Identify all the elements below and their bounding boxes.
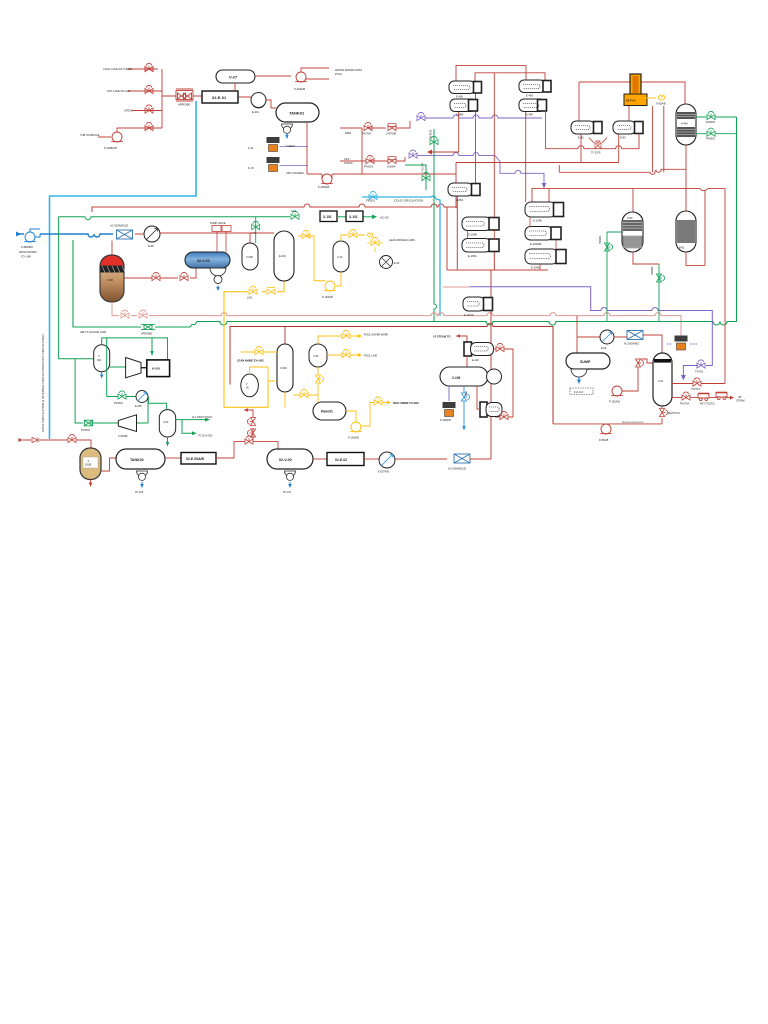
wire: red row SILK y=161 [340, 157, 405, 161]
wire: red TV0713 line [672, 383, 725, 385]
svg-text:RICH AMINE TO ABS: RICH AMINE TO ABS [393, 401, 419, 405]
vessel V-06 (circle) [241, 374, 259, 397]
svg-text:X-101: X-101 [349, 215, 358, 219]
svg-text:X-05A/B: X-05A/B [656, 102, 666, 106]
svg-text:COLD LAKE OIL TURBO: COLD LAKE OIL TURBO [103, 67, 132, 71]
svg-text:AMY'S SUGAR LINE: AMY'S SUGAR LINE [80, 330, 106, 334]
svg-text:E-456: E-456 [526, 94, 533, 98]
valve yellow lean amine [371, 237, 379, 245]
wire: yellow TANK03 outlet to pump [346, 403, 387, 427]
wire: TANK01 bottoms line to pump [307, 122, 322, 174]
wire: red bottom feed line [23, 440, 91, 448]
valve feed-3 [145, 105, 153, 113]
wire: yellow V-30 bottom to TANK03 [293, 367, 318, 402]
funnel under TANK02 [137, 471, 148, 480]
valve green PV-0700 [430, 136, 438, 144]
instrument top right [675, 336, 688, 351]
valve motorized KEY-T31 [698, 394, 709, 401]
svg-text:E-001: E-001 [279, 254, 286, 258]
valve yellow V-10 top [349, 229, 357, 237]
svg-text:H-80: H-80 [627, 217, 633, 220]
valve yellow x=306 [302, 230, 310, 238]
svg-text:V-105: V-105 [452, 376, 461, 380]
vessel V-002 [277, 344, 293, 392]
wire: to V-00 column [614, 335, 662, 353]
svg-text:AUX: AUX [465, 391, 468, 396]
svg-text:TV0711: TV0711 [695, 371, 704, 374]
svg-text:02-V-00: 02-V-00 [279, 458, 292, 462]
svg-text:P-103A/B: P-103A/B [322, 296, 333, 299]
wire: green main bus y=321.5 [73, 117, 737, 327]
svg-text:P-404A/B: P-404A/B [294, 87, 305, 91]
wire: green F-HC-UP stub [405, 165, 426, 190]
exchanger E-10x bottom [463, 297, 493, 311]
exchanger E-88 (circle) [144, 226, 160, 242]
exchanger E-80L [571, 121, 602, 134]
wire: red H-81 bottoms [686, 252, 705, 265]
wire: red rail top y=65.4 [456, 65, 526, 81]
svg-text:APROB0: APROB0 [178, 103, 191, 107]
vessel V-30 [309, 344, 327, 367]
svg-text:E-85A: E-85A [456, 198, 463, 202]
svg-text:TRACK: TRACK [344, 161, 353, 165]
svg-text:P-88A/B/C: P-88A/B/C [21, 245, 33, 249]
pump P-88A/B/C (blue) [24, 232, 36, 242]
valve red E-102 out [496, 343, 504, 351]
svg-text:PV-0700: PV-0700 [430, 129, 433, 139]
svg-text:E-007A/B: E-007A/B [378, 471, 389, 474]
wire: red rail A y=172.3 H-440 bottoms [559, 145, 686, 211]
svg-text:TO 02-K-001: TO 02-K-001 [198, 435, 213, 438]
exchanger E-301 (circle with legs) [251, 93, 266, 108]
svg-text:V-30: V-30 [313, 354, 319, 358]
svg-text:PV0704: PV0704 [680, 403, 690, 406]
wire: green branch to recycle valve [75, 359, 118, 423]
svg-text:TV 2076: TV 2076 [591, 152, 601, 155]
funnel under SUMP [571, 369, 587, 377]
column H-440 [676, 104, 696, 145]
wire: tan vessel bottom arrow [90, 480, 92, 484]
svg-text:LV0700B: LV0700B [386, 133, 396, 136]
wire: red rail B y=188.6 [532, 189, 725, 384]
svg-text:Flare01: Flare01 [321, 410, 333, 414]
valve green recycle [84, 420, 93, 426]
wire: red H-80 bottoms [633, 252, 659, 264]
valve V-88 draw 1 [152, 272, 160, 280]
svg-text:H-440: H-440 [681, 123, 688, 126]
valve TV0711 (purple) [697, 360, 705, 368]
box 02-E-02 [327, 453, 364, 466]
valve station APROB (double valve) [176, 89, 193, 101]
svg-text:PV0003: PV0003 [364, 166, 374, 169]
svg-text:004: 004 [97, 359, 102, 362]
wire: feed branch 1 [128, 68, 158, 70]
svg-text:E-301: E-301 [252, 110, 259, 114]
svg-text:P-405A/B: P-405A/B [318, 185, 329, 189]
valve purple row2 [409, 150, 417, 158]
wire: F-15 signal [280, 165, 309, 167]
box 02-E-05A/B [181, 453, 216, 465]
wire: feed branch 3 [132, 110, 162, 112]
wire: feed branch 2 [128, 90, 162, 92]
vessel 02-V-00 [267, 449, 313, 469]
svg-text:ALL RIGHT HIGH: ALL RIGHT HIGH [192, 416, 212, 419]
svg-text:E-104B: E-104B [533, 219, 542, 223]
column V-00 [653, 353, 672, 406]
svg-text:APROB01: APROB01 [141, 333, 153, 336]
wire: red HP steam line [672, 397, 730, 399]
vessel TANK03 [313, 402, 346, 420]
svg-text:E-80: E-80 [578, 136, 584, 140]
valve V-88 bottom 1 [121, 310, 129, 318]
tray band H-440 upper [677, 112, 695, 119]
svg-text:V-00: V-00 [251, 232, 257, 235]
svg-text:COLD CIRCULATION: COLD CIRCULATION [394, 199, 423, 203]
wire: red row NEW y=128 [340, 121, 410, 174]
wire: green arrow to AC-00 [363, 216, 372, 218]
vessel X-001A/B (tan) [80, 448, 101, 480]
wire: AC-005 to riser [470, 458, 491, 460]
svg-text:AC-00: AC-00 [380, 215, 389, 219]
svg-text:CHECK: CHECK [286, 144, 295, 148]
wire: purple signal rail 1 [425, 115, 542, 118]
valve feed-4 [145, 122, 153, 130]
pump P-104A/B (yellow) [350, 422, 362, 432]
wire: yellow pump loop under V-10 [298, 236, 341, 286]
svg-text:PV0002: PV0002 [81, 429, 91, 432]
svg-text:E-105B: E-105B [468, 233, 477, 237]
wire: 02-V-00 to 02-E-02 [313, 458, 327, 460]
svg-text:MGHXY01: MGHXY01 [668, 412, 681, 415]
wire: green feed H-80 [607, 232, 622, 322]
wire: E-102 to V-105 [467, 349, 513, 417]
svg-text:E-102: E-102 [472, 359, 479, 362]
pump P-405A/B [321, 174, 333, 184]
exchanger 02-D [480, 402, 502, 417]
svg-text:02-E-02: 02-E-02 [335, 458, 347, 462]
svg-text:KEY-T31(T2): KEY-T31(T2) [700, 403, 715, 406]
tray band H-440 lower [677, 127, 695, 137]
wire: yellow V-002 bottom stem [284, 392, 286, 407]
wire: yellow V-30 top line [318, 336, 358, 344]
valve yellow amine 1 [249, 286, 257, 294]
vessel V-004 [94, 345, 110, 372]
svg-text:V-27: V-27 [229, 75, 238, 80]
exchanger E-08 (circle) [600, 330, 614, 344]
wire: F-11 signal [280, 146, 309, 148]
valve LV0700B [388, 125, 396, 130]
exchanger E-105B row2 [462, 239, 499, 253]
valve PV0704 [682, 392, 690, 400]
svg-text:AMY FIGURES: AMY FIGURES [286, 171, 304, 175]
wire: red rail y=72.8 [475, 73, 545, 81]
svg-text:E-104A: E-104A [531, 266, 540, 270]
svg-text:LEAN AMINE EX-ABS: LEAN AMINE EX-ABS [389, 238, 415, 242]
wire: red drop x=494.3 [493, 73, 495, 217]
exchanger E-007A/B (circle) [379, 452, 395, 468]
compressor K-001 [126, 358, 141, 378]
svg-text:HOT LAKE OIL ALE: HOT LAKE OIL ALE [107, 89, 130, 93]
aircooler AC-005A/B/C/D [454, 454, 470, 463]
exchanger E-34F (2nd-right) [519, 99, 547, 112]
svg-text:AC-003A/B/C/D: AC-003A/B/C/D [110, 224, 128, 228]
valve V-88 draw 2 [180, 272, 188, 280]
svg-text:SUMP VALVE: SUMP VALVE [210, 222, 226, 225]
svg-text:E-08: E-08 [601, 347, 607, 350]
wire: red drops below exchangers [432, 93, 549, 203]
svg-text:NEW: NEW [345, 131, 352, 135]
svg-text:H-81: H-81 [679, 247, 685, 250]
valve red cluster [635, 359, 643, 367]
svg-text:E-34F: E-34F [526, 113, 533, 117]
svg-text:V-005: V-005 [246, 255, 253, 259]
svg-text:LP STEAM TO: LP STEAM TO [433, 335, 450, 339]
svg-text:E-456: E-456 [456, 95, 463, 99]
column H-80 [622, 212, 643, 252]
wire: red hot rail y=207 across middle [92, 204, 457, 212]
funnel under TANK01 [282, 124, 293, 133]
svg-text:POOL LINE: POOL LINE [364, 355, 377, 358]
svg-text:E-105A: E-105A [468, 254, 477, 258]
valve PV0003 [366, 155, 374, 163]
wire: V-002 top stem to red rail [284, 327, 286, 345]
pump P-102A/B [611, 386, 623, 396]
label feed lines [80, 67, 133, 150]
reboiler E-102 [464, 342, 494, 356]
vessel SUMP [566, 353, 610, 369]
valve MGHXY01 (vertical) [659, 409, 667, 417]
svg-text:02-F-01: 02-F-01 [626, 99, 636, 103]
valve feed-1 [145, 66, 153, 71]
wire: pump discharge east [332, 134, 619, 208]
svg-text:P-102A/B: P-102A/B [609, 401, 620, 404]
valve yellow amine 2 [267, 289, 275, 294]
exchanger E-456 (top-left) [449, 81, 482, 94]
svg-text:LEAN AMINE EX-ABS: LEAN AMINE EX-ABS [237, 359, 264, 363]
valve green F-HC-UP [422, 172, 430, 180]
wire: pink warm rail y=316 to instrument [112, 303, 681, 336]
wire: blue AUX line [463, 386, 465, 427]
valve cyan cold circ [369, 191, 377, 199]
svg-text:E-30: E-30 [394, 262, 400, 265]
wire: E-105 U-bend [468, 231, 495, 240]
svg-text:P-103A/B: P-103A/B [348, 437, 359, 440]
svg-text:V-10: V-10 [337, 255, 343, 259]
column H-81 [676, 211, 696, 252]
svg-text:E-10/XX: E-10/XX [464, 313, 474, 317]
exchanger E-105B row1 [462, 217, 499, 231]
valve feed-2 [145, 85, 153, 93]
wire: green V-003 bottom stub [167, 437, 169, 443]
svg-text:TO V-88: TO V-88 [21, 255, 31, 259]
wire: tan vessel to TANK02 [101, 458, 116, 471]
wire: V-88 side draws [124, 268, 196, 278]
wire: dark red rail y=326.5 [230, 324, 553, 424]
wire: V-27 stem [235, 76, 291, 91]
wire: green takeoff upper [696, 116, 737, 118]
svg-text:AC-005A/B/C/D: AC-005A/B/C/D [448, 467, 466, 471]
svg-text:E-34B: E-34B [456, 113, 463, 117]
wire: between boxes [337, 216, 346, 218]
wire: purple stub to P-106 instrument [448, 386, 450, 401]
svg-text:POOL WATER MARK: POOL WATER MARK [364, 334, 389, 337]
vessel TANK01 [276, 103, 319, 122]
wire: green PV-0700 drop line [434, 129, 437, 322]
wire: purple long rail (V-105 to TV0711) [470, 287, 713, 377]
svg-text:E-80: E-80 [620, 136, 626, 140]
wire: yellow amine main loop [224, 281, 284, 407]
svg-text:PV0001: PV0001 [366, 200, 376, 203]
check valve bottom feed [32, 438, 38, 443]
svg-text:P-85A/B: P-85A/B [599, 439, 609, 442]
aircooler AC-005A/B/C [627, 331, 643, 340]
svg-text:POOL: POOL [335, 72, 343, 76]
valve bottom feed [68, 434, 76, 442]
box 02-E-01 [202, 91, 238, 103]
svg-text:V-00: V-00 [658, 380, 664, 383]
column V-005 [242, 243, 258, 270]
valve green V-00 [252, 221, 260, 229]
valve yellow tank feed [300, 389, 308, 397]
box X-101 b [346, 211, 363, 222]
exchanger E-104A/B [525, 227, 561, 241]
valve green bus APROB [141, 324, 155, 329]
wire: AC-003 to E-88 to columns [112, 233, 274, 255]
exchanger E-104A [525, 249, 566, 264]
svg-text:WASH WATER: WASH WATER [19, 250, 37, 254]
valve yellow rich amine [374, 397, 382, 405]
valve TV-2076 [595, 141, 601, 149]
aircooler AC-003A/B/C/D [117, 230, 133, 239]
box X-101 a [320, 211, 337, 222]
box dashed F-0-0-0 [570, 388, 593, 395]
svg-text:F-11: F-11 [248, 146, 254, 150]
svg-text:WASTE WATER FIRST: WASTE WATER FIRST [335, 68, 363, 72]
svg-text:K-002/B: K-002/B [118, 434, 128, 438]
exchanger E-34B (2nd-left) [450, 99, 478, 112]
vessel TANK02 [116, 449, 165, 469]
instrument F-15 [267, 157, 280, 172]
svg-text:E-005: E-005 [135, 405, 142, 408]
exchanger E-456B (top-right) [519, 80, 551, 93]
wire: cyan cold circulation branch [362, 196, 440, 316]
wire: red rail y=82 to flare/H-440 [579, 82, 685, 121]
svg-text:02-E-05A/B: 02-E-05A/B [186, 457, 204, 461]
svg-text:02-E-01: 02-E-01 [212, 95, 227, 100]
valve purple row1 [417, 112, 425, 120]
exchanger E-80R [613, 121, 643, 134]
svg-text:X-101: X-101 [323, 215, 332, 219]
column V-10 [333, 241, 349, 272]
wire: 02-E-05 to 02-V-00 [216, 442, 278, 458]
flare stack 02-F-01 [630, 74, 641, 95]
svg-text:RECIRCULATION KIT: RECIRCULATION KIT [622, 421, 644, 424]
valve TV0713 [693, 378, 701, 386]
wire: yellow flare tip line [641, 97, 656, 99]
wire: E-104 connectors [530, 217, 556, 270]
valve PV0700 [364, 122, 372, 130]
wire: station to exchanger box [193, 96, 251, 97]
wire: 02-E-02 to E-007 [364, 458, 379, 460]
svg-text:P-106A/B: P-106A/B [440, 419, 451, 422]
wire: yellow V-10 top flare line [341, 235, 365, 241]
valve green H-80 drop [604, 243, 612, 251]
wire: green V-004 top loop [102, 338, 168, 397]
svg-text:PV8051: PV8051 [706, 138, 716, 141]
svg-text:K-001: K-001 [152, 367, 161, 371]
valve V-88 bottom 2 [139, 310, 147, 318]
wire: red riser to SUMP [577, 316, 600, 353]
vessel V-27 [216, 70, 255, 83]
wire: E-007 to AC-005 [395, 458, 447, 460]
valve PV-0001 [118, 391, 126, 399]
valve stacked lower [247, 429, 255, 437]
svg-text:LV0004: LV0004 [387, 166, 396, 169]
valve PV8045 [707, 111, 715, 119]
wire: pump to column [622, 359, 653, 391]
flame X-05A/B [658, 95, 665, 100]
svg-text:001/B: 001/B [85, 464, 92, 467]
wire: flare header rail y=148.7 [546, 111, 639, 149]
wire: green 2nd stage loop with PV-0001 and E-005 [107, 397, 167, 424]
wire: green drop to V-005 [255, 217, 257, 243]
svg-text:TANK02: TANK02 [130, 458, 144, 462]
svg-text:E-88: E-88 [148, 244, 154, 248]
svg-text:PV0700: PV0700 [362, 133, 372, 136]
pump P-103A/B (yellow) [324, 281, 336, 291]
vessel V-105 [440, 367, 488, 386]
svg-text:SILK: SILK [344, 157, 350, 161]
svg-text:F-HC-UP: F-HC-UP [422, 163, 425, 173]
svg-text:X-02: X-02 [291, 210, 297, 213]
exchanger E-30 (circle with X) [380, 256, 393, 269]
instrument F-11 [267, 137, 280, 152]
valve red 02-D out [500, 411, 508, 419]
svg-text:PV0001: PV0001 [114, 402, 124, 405]
flame icon lean amine [367, 233, 373, 237]
wire: V-00 bottoms loop [553, 406, 662, 424]
valve yellow V-30 side [342, 349, 350, 357]
svg-text:COLD CIRCULATION & INTERNAL CI: COLD CIRCULATION & INTERNAL CIRCULATION/… [41, 334, 45, 432]
wire: yellow V-30 side line [327, 354, 358, 356]
svg-text:STEAM: STEAM [736, 400, 745, 403]
svg-text:E-104A/B: E-104A/B [530, 242, 541, 246]
instrument SUMP VALVE above [212, 226, 221, 232]
wire: LP steam inlet [456, 336, 467, 342]
svg-text:TK-101: TK-101 [283, 491, 292, 494]
wire: yellow V-06 top loop [250, 367, 268, 381]
svg-text:V-03: V-03 [163, 420, 169, 424]
svg-text:P-1068A/B: P-1068A/B [104, 146, 117, 150]
valve PV8051 [707, 128, 715, 136]
wire: green takeoff lower [696, 133, 737, 135]
svg-text:AC-005A/B/C: AC-005A/B/C [624, 343, 639, 346]
svg-text:F-15: F-15 [248, 166, 254, 170]
wire: green riser x=659 [658, 264, 660, 322]
svg-text:V-002: V-002 [280, 366, 287, 370]
wire: green V-004 to K-001 [110, 366, 126, 368]
valve yellow V-30 top [342, 330, 350, 338]
exchanger E-85A [448, 183, 480, 196]
wire: feed header collector [162, 69, 176, 128]
wire: feed branch 4 from pump [98, 128, 162, 137]
instrument P-106A/B [443, 402, 456, 417]
wire: red drop to AC-005 x=491 [447, 196, 548, 459]
svg-text:SUMP: SUMP [580, 360, 591, 364]
svg-text:PV8045: PV8045 [706, 121, 716, 124]
wire: flare KO drains [653, 106, 664, 172]
wire: red stacked valve branch [248, 410, 253, 442]
